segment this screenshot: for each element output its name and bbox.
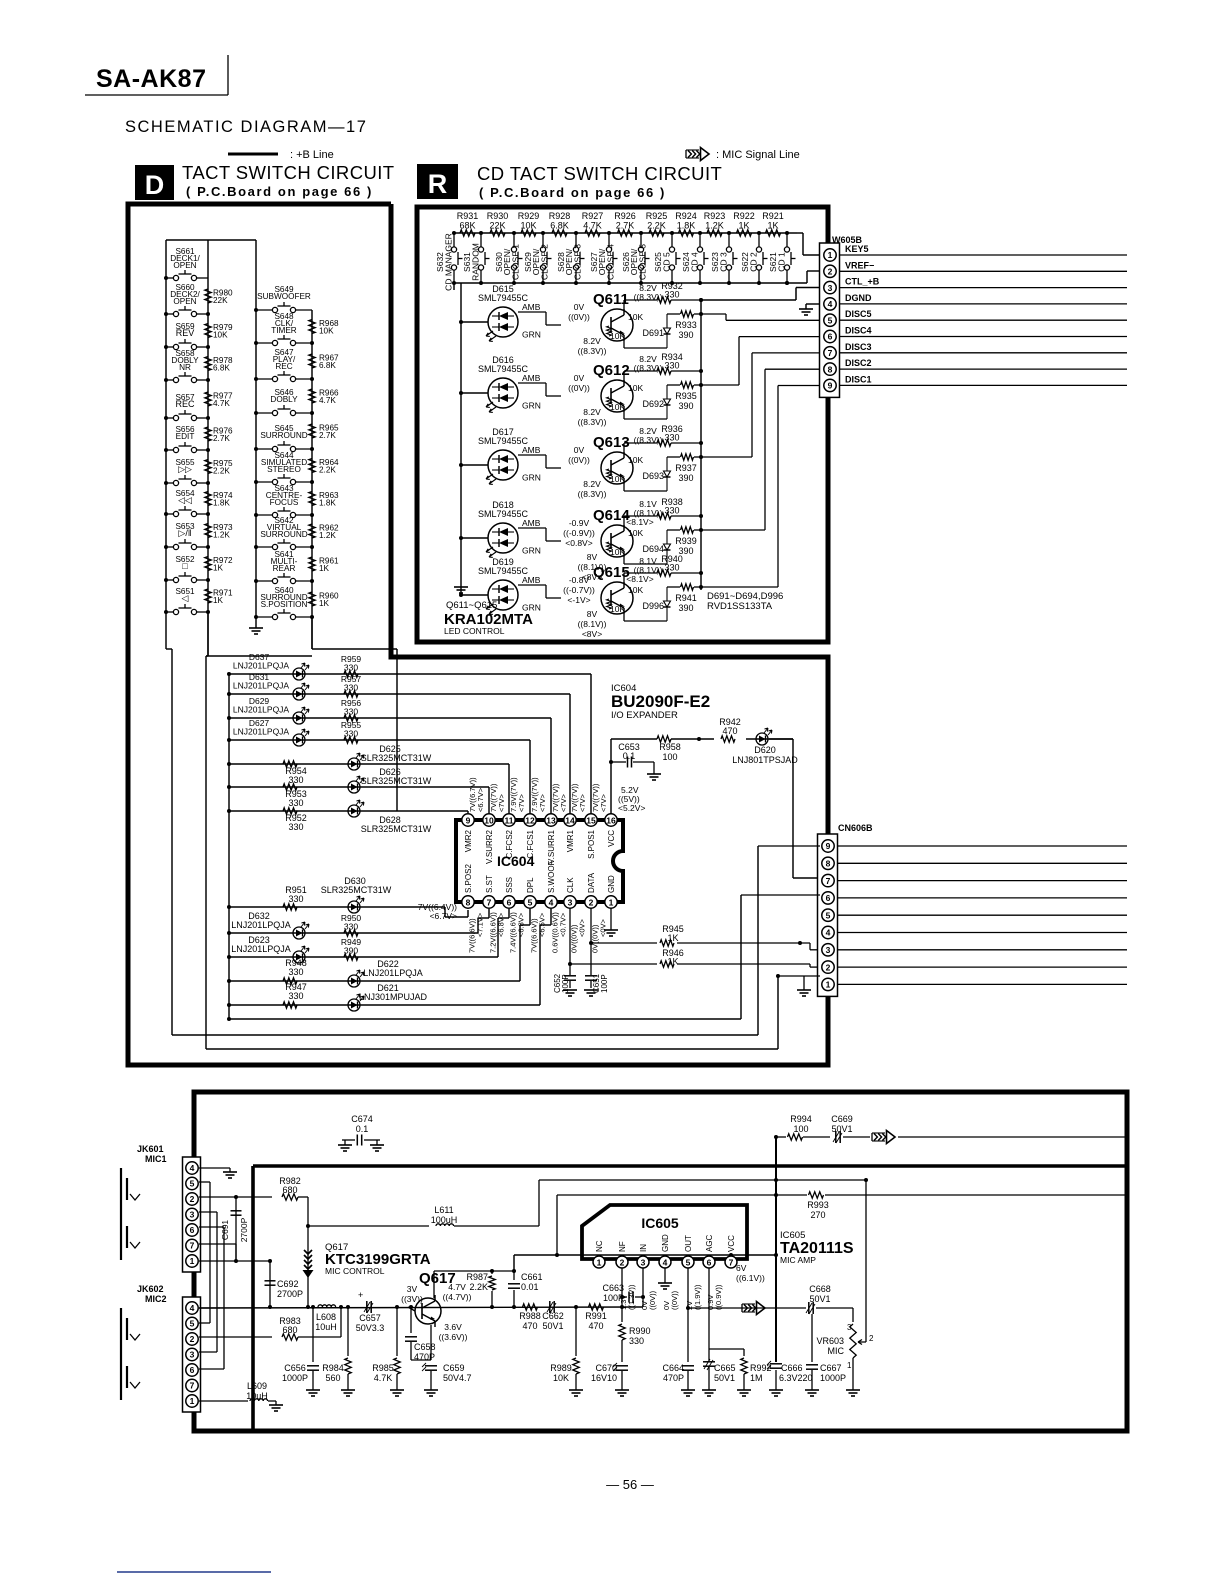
svg-text:330: 330 [288,775,303,785]
wire VCC IC605 [730,1255,732,1256]
switch S655 [164,475,210,486]
svg-text:▷/‖: ▷/‖ [178,528,191,538]
resistor R940 [657,554,683,576]
wire DISC3 [840,352,1127,354]
svg-text:5: 5 [190,1319,195,1329]
label S654 [175,489,195,505]
svg-text:1K: 1K [319,599,330,608]
svg-text:8: 8 [826,859,831,869]
resistor R965 [309,424,339,441]
svg-text:<7.1V>: <7.1V> [476,912,485,937]
label pin 4 name [547,860,556,893]
svg-text:7: 7 [190,1241,195,1251]
wire LED to base [518,312,561,325]
switch S641 [254,573,314,584]
svg-text:470: 470 [588,1321,603,1331]
svg-text:REC: REC [175,399,195,409]
resistor R980 [205,289,233,306]
switch S657 [164,410,210,421]
label Q617 voltages [401,1282,471,1342]
svg-text:330: 330 [344,707,358,717]
svg-text:NC: NC [595,1240,604,1252]
svg-text:— 56 —: — 56 — [606,1477,654,1492]
svg-text:3: 3 [568,898,573,908]
wire +B thick rail horizontal [253,1164,1127,1168]
svg-text:C665: C665 [714,1363,736,1373]
wire Q617 collector [434,1269,516,1298]
wire ladder col2 exit [206,617,397,656]
wire AGC [709,1268,744,1358]
svg-text:CN606B: CN606B [838,823,873,833]
label pin 2 voltage [619,1284,636,1310]
svg-text:2.2K: 2.2K [469,1282,488,1292]
svg-text:SLR325MCT31W: SLR325MCT31W [361,753,432,763]
svg-text:R958: R958 [659,742,681,752]
resistor R994 [774,1114,830,1140]
label pin 5 name [526,877,535,893]
svg-text:50V4.7: 50V4.7 [443,1373,472,1383]
label S652 [175,555,195,571]
svg-text:D996: D996 [642,601,664,611]
resistor R978 [205,356,233,373]
label JK602 [137,1284,167,1304]
potentiometer VR603 [816,1323,874,1396]
wire Q613 output [701,353,820,457]
footer line [117,1571,271,1573]
wire collector [624,441,703,454]
svg-text:6V: 6V [736,1263,747,1273]
switch S632 [451,231,462,285]
svg-text:((4.7V)): ((4.7V)) [443,1292,472,1302]
wire JK601 pin3 [199,1212,217,1352]
svg-text:L609: L609 [247,1381,267,1391]
svg-text:8.2V: 8.2V [583,336,601,346]
resistor R989 [550,1305,583,1396]
wire emitter [624,614,667,621]
wire out coupling [686,1306,806,1310]
svg-text:10uH: 10uH [246,1391,268,1401]
svg-text:330: 330 [664,290,679,300]
diode D694 [642,530,670,564]
wire ladder row [227,909,509,959]
wire +B thick rail vertical [251,1166,255,1429]
svg-text:10K: 10K [628,585,643,595]
junction CN area [798,941,802,945]
capacitor C656 [282,1307,320,1396]
label SCHEMATIC DIAGRAM-17 [125,118,367,136]
svg-text:10K: 10K [553,1373,569,1383]
svg-text:Q611~Q615: Q611~Q615 [446,600,497,611]
svg-text:AMB: AMB [522,445,541,455]
wire ladder row [227,809,468,813]
wire R993 line [557,1195,1127,1255]
resistor R982 [279,1176,301,1200]
svg-text:0.1: 0.1 [356,1124,369,1134]
pin 7 IC604 [483,896,495,908]
LED D629 [293,707,309,724]
svg-text:330: 330 [664,563,679,573]
resistor R961 [309,557,339,574]
svg-text:OUT: OUT [684,1235,693,1252]
svg-text:((-0.7V)): ((-0.7V)) [563,585,595,595]
label pin 7 name [485,875,494,893]
svg-text:1.2K: 1.2K [705,221,724,231]
ground CN606B [797,976,811,996]
svg-text:5: 5 [828,315,833,325]
svg-text:VCC: VCC [727,1235,736,1252]
label D623 [231,935,291,954]
svg-text:330: 330 [629,1336,644,1346]
pin 16 IC604 [605,814,617,826]
wire ladder row [227,762,509,813]
capacitor C674 [338,1114,384,1151]
svg-text:1K: 1K [319,564,330,573]
transistor Q612 [601,380,643,412]
svg-text:GND: GND [661,1234,670,1252]
svg-text:390: 390 [678,603,693,613]
label emitter voltage Q613 [578,479,607,499]
svg-text:GRN: GRN [522,330,541,340]
wire CN606B pin [838,914,1127,916]
svg-text:<0V>: <0V> [599,918,608,937]
svg-text:10K: 10K [628,383,643,393]
transistor Q614 [601,525,643,557]
label AMB/GRN 2 [522,445,541,483]
svg-text:6.3V220: 6.3V220 [779,1373,813,1383]
svg-text:R989: R989 [550,1363,572,1373]
resistor R922 [733,211,755,236]
svg-text:6: 6 [190,1365,195,1375]
svg-text:SLR325MCT31W: SLR325MCT31W [361,776,432,786]
svg-text:330: 330 [288,798,303,808]
label D621 [359,983,428,1002]
diode D693 [642,457,670,491]
wire thick vertical 776 [774,1137,778,1362]
svg-text:3V: 3V [407,1284,418,1294]
svg-text:CD 3: CD 3 [719,252,729,272]
svg-text:4: 4 [663,1258,668,1268]
pin 3 IC604 [564,896,576,908]
label S645 [260,424,307,440]
wire DISC5 [840,319,1127,321]
svg-text:GRN: GRN [522,401,541,411]
svg-text:C669: C669 [831,1114,853,1124]
svg-text:VMR2: VMR2 [464,829,473,852]
wire collector [624,298,703,311]
svg-text:7: 7 [828,348,833,358]
label AMB/GRN 1 [522,373,541,411]
svg-text:VCC: VCC [607,830,616,847]
svg-text:1: 1 [847,1361,852,1370]
svg-text:R925: R925 [646,211,668,221]
switch S629 [540,231,551,285]
LED D625 [348,753,364,770]
label S644 [261,451,307,474]
svg-text:1000P: 1000P [282,1373,308,1383]
label pin 3 voltage [570,918,587,953]
label S640 [260,586,307,609]
svg-text:6.8K: 6.8K [550,221,569,231]
label pin 16 name [607,830,616,847]
label pin 12 name [526,829,535,858]
svg-text:OPEN: OPEN [173,261,196,270]
svg-text:((8.3V)): ((8.3V)) [578,346,607,356]
resistor R955 [341,720,362,743]
wire cd bus drop [453,283,455,290]
capacitor C662 [542,1301,564,1331]
switch S642 [254,539,314,550]
svg-text:((-0.9V)): ((-0.9V)) [563,528,595,538]
resistor R921 [762,211,784,236]
svg-text:390: 390 [678,401,693,411]
MIC signal arrow out [742,1302,765,1315]
wire JK601 pin7 [199,1244,236,1261]
label D631 [233,672,290,691]
svg-text:GND: GND [607,875,616,893]
resistor R941 [675,584,697,613]
label S660 [170,283,200,306]
svg-text:SA-AK87: SA-AK87 [96,65,206,93]
wire bus to VREF [785,271,820,285]
MIC signal arrow down [303,1250,314,1278]
svg-text:10K: 10K [610,474,625,484]
svg-text:330: 330 [664,433,679,443]
label TACT SWITCH CIRCUIT [182,162,394,183]
svg-text:1.8K: 1.8K [213,499,230,508]
label D630 [321,876,392,895]
pin 2 IC604 [585,896,597,908]
svg-text:SML79455C: SML79455C [478,436,529,446]
svg-text:CD 1: CD 1 [777,252,787,272]
inductor L608 [315,1305,337,1332]
label Q617 part [325,1242,431,1276]
svg-text:CD MANAGER: CD MANAGER [444,233,454,291]
svg-text:SCHEMATIC DIAGRAM—17: SCHEMATIC DIAGRAM—17 [125,118,367,136]
svg-text:C670: C670 [595,1363,617,1373]
capacitor C667 [805,1314,846,1396]
label VCC voltage IC605 [736,1263,765,1283]
svg-text:((0V)): ((0V)) [568,312,590,322]
svg-text:3: 3 [828,283,833,293]
svg-text:MIC: MIC [828,1346,845,1356]
connector JK601 [121,1157,201,1272]
svg-text:C691: C691 [220,1220,230,1241]
wire tact ladder resistor rail col1 [207,240,209,656]
wire CN pin6 stub [741,894,820,896]
wire r390 [667,312,703,316]
svg-text:2: 2 [869,1334,874,1343]
svg-text:1K: 1K [738,221,749,231]
svg-text:<7V>: <7V> [578,793,587,812]
svg-text:((1.9V)): ((1.9V)) [693,1284,702,1310]
label pin 6 voltage [509,912,526,953]
label S630 [494,244,521,280]
label (P.C.Board on page 66) 2 [479,185,666,200]
label base voltage Q614 [563,518,595,548]
label S628 [556,244,583,280]
svg-text:□: □ [182,561,188,571]
svg-text:AGC: AGC [705,1234,714,1252]
switch S645 [254,441,314,452]
svg-text:R931: R931 [457,211,479,221]
resistor R933 [675,311,697,340]
switch S644 [254,474,314,485]
svg-text:EDIT: EDIT [176,432,195,441]
svg-text:2.2K: 2.2K [319,466,336,475]
label LED CONTROL [444,626,505,636]
resistor R972 [205,556,233,573]
svg-text:JK601: JK601 [137,1144,164,1154]
svg-text:R988: R988 [519,1311,541,1321]
label pin 4 voltage [662,1290,679,1310]
wire D620 to CN pin7 [769,739,820,878]
svg-text:10K: 10K [610,402,625,412]
LED D622 [348,970,364,987]
label pin 6 voltage [706,1284,723,1310]
resistor R951 [283,885,307,910]
wire CN606B pin [838,845,1127,847]
svg-text:LNJ201LPQJA: LNJ201LPQJA [231,920,291,930]
switch S646 [254,405,314,416]
capacitor C653 [611,742,661,780]
svg-text:CLOSE 3: CLOSE 3 [573,244,583,280]
svg-text:C657: C657 [359,1313,381,1323]
capacitor C659 [422,1325,472,1396]
svg-text:((6.1V)): ((6.1V)) [736,1273,765,1283]
svg-text:50V1: 50V1 [542,1321,563,1331]
label DISC4 [845,326,872,336]
label pin8 voltage [418,902,457,921]
svg-text:C662: C662 [542,1311,564,1321]
svg-text:<6.5V>: <6.5V> [538,912,547,937]
label D627 [233,718,290,737]
svg-text:R922: R922 [733,211,755,221]
wire DGND [840,303,1127,305]
wire collector bus [700,300,702,590]
switch S658 [164,372,210,383]
pin 2 IC605 [616,1256,628,1268]
label emitter voltage Q612 [578,407,607,427]
svg-text:2700P: 2700P [277,1289,303,1299]
svg-text:4.7V: 4.7V [448,1282,466,1292]
switch S631 [478,231,489,285]
wire loop bus A [172,649,758,1035]
IC U IC605 body [582,1205,747,1259]
ground IC605 GND [658,1268,672,1289]
svg-text:2: 2 [826,962,831,972]
svg-text:CTL_+B: CTL_+B [845,277,880,287]
svg-text:0.1: 0.1 [623,751,636,761]
switch S640 [254,609,314,620]
svg-text:R994: R994 [790,1114,812,1124]
svg-text:SSS: SSS [505,877,514,893]
svg-text:R928: R928 [549,211,571,221]
capacitor C670 [591,1363,629,1396]
wire CN606B pin [838,983,1127,985]
svg-text:0V: 0V [574,302,585,312]
label DISC1 [845,374,872,384]
svg-text:4: 4 [826,928,831,938]
label D691~D694,D996 [707,591,783,602]
svg-text:R993: R993 [807,1200,829,1210]
legend +B line symbol [228,153,278,156]
svg-text:C.FCS2: C.FCS2 [505,829,514,858]
box MIC amplifier section [194,1092,1127,1431]
resistor R950 [341,913,362,936]
svg-text:<7V>: <7V> [517,793,526,812]
wire Q612 output [701,337,820,385]
resistor R957 [341,674,362,697]
resistor R966 [309,389,339,406]
wire Q611 output [701,314,820,320]
resistor R945 [591,924,820,950]
svg-text:<0.7V>: <0.7V> [559,912,568,937]
resistor R983 [279,1316,301,1340]
svg-text:VR603: VR603 [816,1336,844,1346]
wire JK601 pin1 [199,1259,272,1263]
svg-text:LNJ201LPQJA: LNJ201LPQJA [231,944,291,954]
label D625 [361,744,432,763]
svg-text:CD 2: CD 2 [749,252,759,272]
svg-text:R926: R926 [614,211,636,221]
svg-text:C656: C656 [284,1363,306,1373]
wire KEY5 [840,254,1127,256]
svg-text:50V3.3: 50V3.3 [356,1323,385,1333]
svg-text:7: 7 [826,876,831,886]
label pin 14 name [566,829,575,852]
svg-text:<8V>: <8V> [582,629,602,639]
svg-text:470P: 470P [663,1373,684,1383]
label pin 10 voltage [489,783,506,812]
svg-text:NF: NF [618,1241,627,1252]
svg-text:C658: C658 [414,1342,436,1352]
svg-text:C.FCS1: C.FCS1 [526,829,535,858]
svg-text:6: 6 [507,898,512,908]
svg-text:CLOSE 1: CLOSE 1 [511,244,521,280]
svg-text:11: 11 [505,816,514,826]
LED D637 [293,663,309,680]
svg-text:50V1: 50V1 [714,1373,735,1383]
pin 8 IC604 [462,896,474,908]
resistor R973 [205,523,233,540]
resistor R987 [466,1271,495,1307]
LED D621 [348,994,364,1011]
resistor R926 [614,211,636,236]
label Q611~Q615 [446,600,497,611]
svg-text:9: 9 [466,816,471,826]
label pin 15 name [587,829,596,858]
capacitor C669 [831,1114,870,1143]
switch S653 [164,539,210,550]
svg-text:470: 470 [522,1321,537,1331]
svg-text:4.7K: 4.7K [374,1373,393,1383]
pin 6 IC605 [703,1256,715,1268]
svg-text:10: 10 [484,816,494,826]
label CN606B [838,823,873,833]
svg-text:4: 4 [190,1163,195,1173]
wire CN606B pin [838,932,1127,934]
svg-text:TIMER: TIMER [271,326,297,335]
label S626 [621,244,648,280]
svg-text:R937: R937 [675,463,697,473]
svg-text:16V10: 16V10 [591,1373,617,1383]
wire diode ladder rail [228,674,230,1019]
svg-text:1M: 1M [750,1373,763,1383]
svg-text:SML79455C: SML79455C [478,509,529,519]
wire ladder row [227,672,591,813]
svg-text:560: 560 [325,1373,340,1383]
svg-text:5: 5 [686,1258,691,1268]
